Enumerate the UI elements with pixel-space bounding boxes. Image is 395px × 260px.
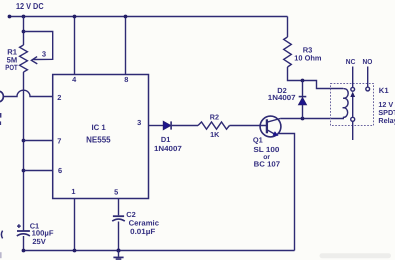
svg-text:NO: NO [363, 57, 373, 66]
svg-text:NE555: NE555 [86, 134, 111, 144]
wire NC terminal [352, 67, 354, 88]
pot wiper arrow of R1 [31, 57, 37, 64]
wire top supply rail [10, 16, 288, 18]
svg-text:5: 5 [114, 188, 118, 197]
wire D1 to R2 [172, 125, 198, 127]
wire bottom ground rail [24, 250, 295, 252]
wire pot wiper loop [24, 32, 53, 60]
label D2 1N4007 [268, 86, 296, 102]
wire R3 to relay coil top with step [288, 67, 344, 89]
label R2 1K [210, 113, 220, 139]
relay armature arrow [350, 92, 355, 97]
junction pin 6 branch [22, 169, 26, 173]
junction collector D2 [301, 117, 305, 121]
resistor R3 zigzag [284, 37, 292, 67]
svg-text:2: 2 [57, 93, 61, 102]
wire pin 3 output [149, 125, 164, 127]
svg-text:10 Ohm: 10 Ohm [294, 54, 322, 63]
node VCC label 12 V DC [16, 1, 44, 11]
label R3 10 Ohm [294, 45, 322, 62]
wire pin 4 to rail [74, 17, 76, 75]
svg-text:Relay: Relay [378, 116, 395, 125]
label R1 5M POT [5, 47, 18, 72]
contact NO circle [366, 87, 370, 91]
svg-text:1N4007: 1N4007 [268, 93, 296, 102]
svg-text:K1: K1 [379, 86, 390, 95]
left edge text fragment [0, 113, 1, 125]
op-amp IC1 NE555 box [53, 75, 149, 199]
label Q1 SL 100 or BC 107 [253, 135, 280, 168]
contact pole circle [351, 117, 355, 121]
svg-text:NC: NC [346, 57, 356, 66]
scrollbar fragment bottom left [0, 252, 2, 258]
junction pin 8 rail [124, 15, 128, 19]
wire R1 bottom down to C1 [23, 72, 25, 231]
junction pin 4 rail [73, 15, 77, 19]
wire pin 6 [24, 170, 53, 172]
svg-text:6: 6 [58, 166, 62, 175]
ground symbol [113, 251, 123, 260]
svg-text:1: 1 [71, 187, 75, 196]
svg-text:4: 4 [72, 75, 77, 84]
contact NC circle [351, 87, 355, 91]
svg-text:0.01µF: 0.01µF [130, 227, 156, 236]
wire pin 1 to ground rail [74, 199, 76, 251]
pin 3 label of pot R1 [42, 49, 46, 58]
node supply left terminal dot [8, 15, 12, 19]
svg-text:7: 7 [57, 137, 61, 146]
junction pin 7 branch [22, 139, 26, 143]
left edge capacitor fragment [1, 231, 2, 239]
wire rail corner down to R3 [287, 17, 289, 38]
svg-text:IC 1: IC 1 [91, 123, 106, 132]
svg-text:1N4007: 1N4007 [154, 144, 182, 153]
wire Q1 collector to D2 junction and coil [280, 118, 344, 120]
svg-text:D1: D1 [161, 135, 170, 144]
label D1 1N4007 [154, 135, 182, 153]
svg-text:R2: R2 [210, 113, 219, 122]
pin number labels of IC1 [57, 75, 141, 197]
svg-text:100µF: 100µF [32, 229, 54, 238]
junction C1 ground [22, 249, 26, 253]
relay K1 coil [343, 89, 349, 118]
wire rail down to R1 [23, 17, 25, 46]
capacitor C1 polarity plus [17, 224, 21, 228]
label C1 100uF 25V [30, 221, 54, 246]
label NC NO [346, 57, 373, 66]
wire pin 8 to rail [125, 17, 127, 75]
wire R2 to Q1 base [230, 125, 267, 127]
junction R3 D2 top [301, 79, 305, 83]
label C2 Ceramic 0.01uF [126, 210, 159, 236]
junction top rail to R1 branch [22, 15, 26, 19]
label IC 1 NE555 [86, 123, 111, 144]
diode D1 [163, 121, 171, 130]
svg-text:8: 8 [124, 75, 128, 84]
svg-text:12 V DC: 12 V DC [16, 1, 44, 11]
scrollbar fragment bottom right [320, 253, 392, 258]
wire Q1 emitter to ground rail [278, 134, 295, 251]
svg-text:SL 100: SL 100 [253, 145, 279, 154]
input terminal circle at left edge [0, 91, 3, 101]
transistor Q1 [260, 116, 281, 137]
wire pin 5 to C2 [118, 199, 120, 216]
wire NO terminal [367, 67, 369, 88]
wire pin 2 with hop over vertical wire [4, 90, 53, 96]
capacitor C1 [17, 231, 30, 236]
relay K1 dashed enclosure [331, 84, 374, 126]
label K1 12V SPDT Relay [378, 86, 395, 125]
svg-text:BC 107: BC 107 [254, 159, 280, 168]
svg-text:25V: 25V [32, 237, 45, 246]
wire pin 7 [24, 140, 53, 142]
svg-text:1K: 1K [210, 130, 220, 139]
capacitor C2 [112, 216, 125, 221]
svg-text:3: 3 [137, 118, 141, 127]
svg-text:POT: POT [5, 63, 18, 72]
diode D2 [298, 81, 306, 119]
svg-text:Q1: Q1 [253, 135, 263, 144]
resistor R1 zigzag [20, 45, 28, 72]
wire C2 to ground rail [118, 222, 120, 251]
wire armature to pole [352, 97, 354, 117]
junction pot wiper loop [22, 30, 26, 34]
wire pole down [352, 121, 354, 140]
junction C2 ground [117, 249, 121, 253]
wire C1 to ground rail [23, 236, 25, 251]
svg-text:3: 3 [42, 49, 46, 58]
resistor R2 zigzag [198, 122, 230, 129]
junction pin1 ground [73, 249, 77, 253]
